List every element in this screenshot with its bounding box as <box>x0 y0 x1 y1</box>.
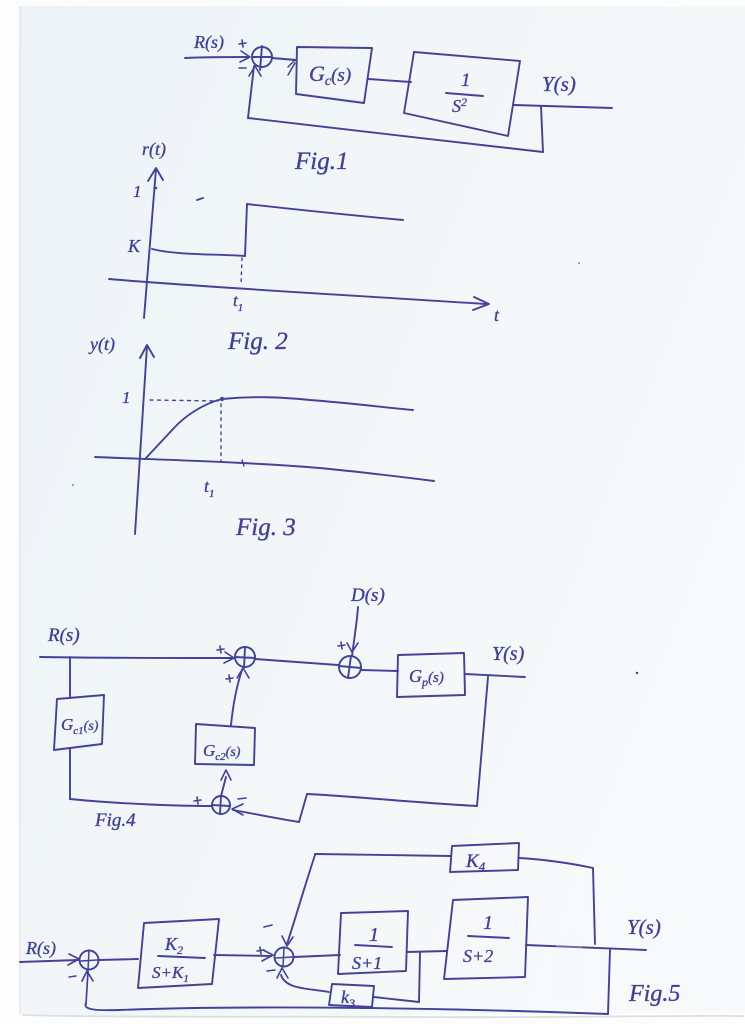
svg-text:r(t): r(t) <box>142 139 166 160</box>
svg-text:Fig. 2: Fig. 2 <box>227 328 288 355</box>
dashed level line <box>150 400 218 401</box>
main wire R to S1 <box>40 657 233 658</box>
arrowhead into Gc2 bottom <box>221 770 231 780</box>
minus right <box>238 798 246 799</box>
wire K2 to S2 <box>214 955 271 956</box>
bottom outer feedback wire <box>85 1003 608 1014</box>
x axis fig2 <box>109 279 486 304</box>
upper level wire <box>247 204 403 220</box>
plus left <box>257 947 264 954</box>
wire to S3 with arrow <box>233 810 299 822</box>
arrowhead into S2 fig5 <box>262 950 273 961</box>
dashed drop at t1 <box>241 258 242 285</box>
arrowhead down into S2 <box>347 643 358 652</box>
svg-text:R(s): R(s) <box>193 32 224 53</box>
block 1/(s+1) <box>338 911 408 974</box>
summing junction S2 fig4 <box>339 656 361 678</box>
stray mark <box>197 198 203 200</box>
svg-text:Y(s): Y(s) <box>492 643 525 665</box>
arrowhead into S1 fig5 <box>68 954 79 965</box>
block 1/(s+2) <box>444 897 528 979</box>
block K2/(s+K1) <box>138 919 219 988</box>
svg-text:D(s): D(s) <box>350 585 385 606</box>
feedback riser fig4 <box>477 677 488 806</box>
wire output Y <box>514 105 612 108</box>
svg-text:Fig.4: Fig.4 <box>94 810 136 831</box>
feedback up arrow into S1 fig5 <box>82 971 93 1004</box>
wire K4 left <box>315 854 451 856</box>
svg-text:R(s): R(s) <box>25 938 56 959</box>
branch down to Gc1 <box>69 657 71 698</box>
dashed drop t1 fig3 <box>220 404 222 461</box>
jog down <box>299 794 307 822</box>
paper bottom edge shadow <box>22 1015 744 1017</box>
block Gc(s) <box>296 47 372 103</box>
svg-text:S+1: S+1 <box>352 953 382 973</box>
summing junction S2 fig5 <box>275 948 294 967</box>
wire S1 to K2 block <box>99 959 138 960</box>
x axis fig3 <box>95 457 434 481</box>
wire S2 to Gp <box>361 670 398 671</box>
bottom wire to S3 <box>70 799 211 806</box>
response curve <box>146 397 413 458</box>
wire tap to K3 <box>374 997 419 1002</box>
wire riser to K4 block <box>519 858 593 868</box>
feedback riser from output <box>541 106 543 152</box>
stray dot left of fig3 <box>72 484 74 486</box>
svg-text:S+2: S+2 <box>463 946 493 966</box>
feedback up wire to S1 <box>248 66 254 118</box>
svg-text:K: K <box>127 236 141 256</box>
wire input to summer <box>185 57 249 58</box>
tick dot <box>155 187 158 190</box>
wire Gc to 1/s2 <box>368 79 411 82</box>
summing junction S1 fig4 <box>235 647 255 667</box>
x axis arrowhead <box>473 297 489 310</box>
plus top <box>217 646 224 653</box>
svg-text:Y(s): Y(s) <box>542 72 576 96</box>
svg-text:S+K1: S+K1 <box>152 963 189 985</box>
K3 arrow up into S2 bottom <box>277 968 288 978</box>
svg-text:1: 1 <box>122 388 131 407</box>
arrowhead into S3 from right <box>232 804 243 815</box>
feedback bottom wire <box>248 118 543 152</box>
wire 1/(s+1) to 1/(s+2) <box>407 951 447 952</box>
curved wire Gc2 to S1 <box>231 670 242 725</box>
correction fluid streak <box>556 934 582 1000</box>
stray dot right of fig2 <box>578 262 580 264</box>
small tick <box>242 460 244 466</box>
K level wire <box>152 249 245 256</box>
wire Gc1 down <box>69 748 71 799</box>
plus left <box>194 797 201 804</box>
arrowhead down into S2 top <box>282 936 293 946</box>
svg-text:R(s): R(s) <box>47 625 80 646</box>
block K4 <box>450 843 519 872</box>
svg-text:y(t): y(t) <box>88 334 115 355</box>
input wire fig5 <box>20 960 78 962</box>
block Gc1 <box>54 695 104 750</box>
feedback arrowhead up into S1 <box>249 66 261 76</box>
summing junction S3 <box>212 796 230 814</box>
y axis arrowhead fig3 <box>140 345 154 358</box>
small arrow at Gc entry <box>288 60 295 75</box>
block K3 <box>329 984 374 1007</box>
block Gc2 <box>195 724 255 765</box>
arrowhead into S1 fig4 <box>224 652 234 663</box>
arrowhead into summer S1 <box>240 51 250 62</box>
arrowhead up into S1 bottom <box>237 668 249 678</box>
svg-text:1: 1 <box>369 924 379 946</box>
stray dot <box>636 672 638 674</box>
wire S1 to S2 <box>255 659 338 665</box>
output wire fig5 <box>526 945 646 950</box>
minus below <box>69 976 76 977</box>
svg-text:Fig.5: Fig.5 <box>628 981 680 1007</box>
wire S2 to 1/(s+1) <box>294 955 340 957</box>
y axis fig2 <box>144 169 156 318</box>
svg-text:1: 1 <box>483 912 493 934</box>
outer loop riser <box>608 950 610 1014</box>
K3 tap riser <box>419 953 420 1002</box>
block 1/s2 <box>404 52 520 136</box>
paper left edge <box>19 6 21 1014</box>
plus at S2 <box>338 642 345 649</box>
fraction bar K2 <box>158 956 205 958</box>
minus below <box>267 970 275 971</box>
minus above <box>264 925 272 927</box>
wire S3 up to Gc2 <box>221 777 226 796</box>
wire K3 to S2 bottom <box>281 975 329 992</box>
plus sign <box>239 40 246 47</box>
K4 riser from output <box>593 868 595 944</box>
y axis arrowhead <box>148 168 163 181</box>
svg-text:1: 1 <box>461 70 471 91</box>
minus sign <box>239 67 246 69</box>
summing junction S1 <box>252 47 272 67</box>
block Gp <box>397 653 465 697</box>
wire D down to S2 <box>352 607 358 656</box>
wire Gp out <box>465 674 525 677</box>
svg-text:Fig.1: Fig.1 <box>294 148 348 175</box>
svg-text:Fig. 3: Fig. 3 <box>235 514 296 541</box>
plus below <box>226 675 233 682</box>
y axis fig3 <box>135 346 147 534</box>
summing junction S1 fig5 <box>80 951 99 970</box>
step wire <box>245 204 247 256</box>
svg-text:1: 1 <box>133 182 142 201</box>
feedback bottom wire right <box>307 794 477 806</box>
K4 descent wire into S2 <box>287 855 315 944</box>
curve dot <box>220 397 224 401</box>
wire S1 to Gc <box>272 58 296 60</box>
svg-text:Y(s): Y(s) <box>627 915 661 939</box>
